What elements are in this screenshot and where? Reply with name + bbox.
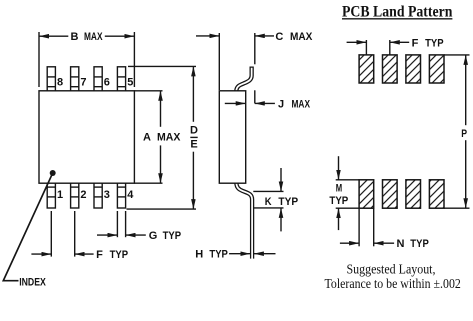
- svg-text:D: D: [190, 125, 198, 137]
- B MAX extension lines: [39, 32, 134, 87]
- index dot (pin 1 marker): [50, 170, 56, 176]
- F TYP dimension arrows: [31, 253, 93, 255]
- svg-text:2: 2: [80, 189, 86, 201]
- svg-text:TYP: TYP: [278, 196, 298, 208]
- svg-text:Suggested Layout,: Suggested Layout,: [347, 263, 436, 278]
- svg-text:MAX: MAX: [292, 98, 311, 110]
- svg-text:MAX: MAX: [157, 131, 181, 143]
- svg-text:TYP: TYP: [209, 249, 228, 261]
- svg-text:TYP: TYP: [425, 37, 444, 49]
- svg-text:TYP: TYP: [110, 249, 129, 261]
- P extension lines: [444, 55, 470, 208]
- D over E fraction label: [190, 125, 198, 151]
- svg-text:1: 1: [57, 189, 63, 201]
- svg-text:INDEX: INDEX: [19, 276, 46, 288]
- A MAX extension lines: [134, 91, 162, 183]
- package body (side view): [219, 91, 245, 183]
- D/E dimension arrows: [192, 66, 194, 209]
- svg-text:6: 6: [104, 76, 110, 88]
- svg-text:Tolerance to be within ±.002: Tolerance to be within ±.002: [325, 277, 461, 292]
- svg-text:F: F: [412, 37, 419, 49]
- svg-text:B: B: [71, 31, 79, 43]
- K TYP extension lines: [253, 191, 283, 208]
- package body (top view): [39, 91, 134, 183]
- C MAX dimension arrows: [196, 35, 274, 37]
- N TYP dimension arrows: [340, 242, 394, 244]
- title underline: [342, 18, 452, 20]
- G TYP extension lines (pin 4 edges): [117, 211, 125, 237]
- svg-text:H: H: [195, 249, 203, 261]
- pins 8,7,6,5 (top row): [47, 67, 125, 91]
- svg-text:N: N: [397, 238, 405, 250]
- svg-text:A: A: [143, 131, 151, 143]
- svg-text:C: C: [275, 31, 283, 43]
- svg-text:TYP: TYP: [410, 238, 429, 250]
- top lead (gull wing up): [236, 67, 251, 91]
- M TYP dimension arrows: [338, 156, 340, 230]
- K TYP dimension arrows: [280, 168, 282, 231]
- svg-text:K: K: [265, 196, 272, 208]
- B MAX dimension line with arrows: [39, 35, 134, 37]
- pins 1,2,3,4 (bottom row): [47, 183, 125, 208]
- F TYP extension lines (pad centers): [366, 40, 389, 55]
- svg-text:E: E: [190, 138, 197, 150]
- M TYP label: [329, 182, 348, 207]
- svg-text:3: 3: [104, 189, 110, 201]
- H TYP dimension arrows: [229, 253, 275, 255]
- A MAX dimension arrows: [160, 91, 162, 183]
- svg-text:G: G: [149, 230, 158, 242]
- bottom row pads (hatched): [359, 180, 444, 208]
- svg-text:F: F: [96, 249, 103, 261]
- svg-text:J: J: [278, 98, 284, 110]
- svg-text:7: 7: [80, 76, 86, 88]
- F TYP extension lines (pin 1 and 2 centers): [51, 211, 74, 257]
- svg-text:MAX: MAX: [84, 31, 103, 43]
- D/E extension lines: [127, 66, 197, 209]
- G TYP dimension arrows: [97, 234, 146, 236]
- J MAX dimension arrows: [225, 102, 275, 104]
- F TYP dimension arrows: [347, 41, 410, 43]
- svg-text:P: P: [461, 128, 467, 140]
- top row pads (hatched): [359, 55, 444, 83]
- svg-text:8: 8: [57, 76, 63, 88]
- P dimension arrows: [465, 55, 467, 208]
- pin numbers top row 8 7 6 5: [57, 76, 133, 88]
- svg-text:4: 4: [127, 189, 134, 201]
- bottom lead (gull wing down): [236, 183, 252, 259]
- svg-text:5: 5: [127, 76, 133, 88]
- svg-text:TYP: TYP: [163, 230, 182, 242]
- svg-text:M: M: [336, 182, 342, 194]
- svg-text:TYP: TYP: [329, 195, 348, 207]
- pin numbers bottom row 1 2 3 4: [57, 189, 134, 201]
- M TYP extension lines: [336, 180, 359, 208]
- K TYP label: [265, 196, 298, 208]
- svg-text:MAX: MAX: [290, 31, 313, 43]
- C MAX extension lines: [219, 33, 255, 103]
- index leader line: [3, 175, 51, 281]
- N TYP extension lines (pad edges): [359, 208, 374, 246]
- svg-text:PCB Land Pattern: PCB Land Pattern: [342, 3, 452, 20]
